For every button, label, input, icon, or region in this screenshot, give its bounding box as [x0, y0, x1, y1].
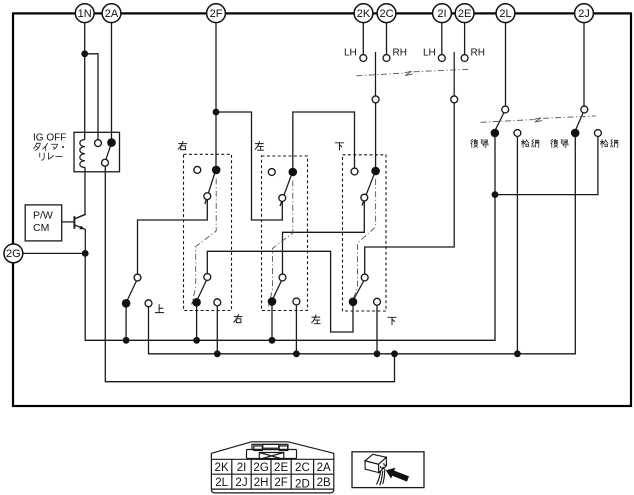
relay icon arrow — [386, 468, 409, 482]
labels fukki / kakunou left — [471, 139, 539, 147]
labels fukki / kakunou right — [551, 139, 618, 147]
node bus1 junction with right-switch contact — [193, 337, 200, 344]
wire down-switch open contact to bus2 — [376, 305, 378, 354]
svg-text:2F: 2F — [274, 477, 287, 489]
svg-text:2L: 2L — [499, 8, 511, 20]
svg-text:2C: 2C — [295, 462, 310, 474]
label migi (right) top — [178, 141, 186, 149]
svg-text:2D: 2D — [295, 479, 310, 491]
wire 1N branch to relay switch contact — [85, 54, 98, 140]
wire kakunou-L contact to bus2 — [516, 136, 518, 353]
relay location icon box — [352, 452, 424, 488]
connector pin 2K — [354, 4, 373, 23]
relay switch arm — [106, 146, 111, 159]
svg-text:2H: 2H — [254, 477, 269, 489]
svg-text:2G: 2G — [6, 248, 21, 260]
svg-text:2A: 2A — [317, 462, 331, 474]
mirror LH/RH switch 1 (2K/2C) — [360, 52, 390, 103]
connector pin 2L — [496, 4, 515, 23]
wire 2G to emitter junction — [23, 252, 85, 254]
node bus2 junction left-switch open contact — [293, 350, 300, 357]
wire 2J to fukki switch pivot — [583, 23, 585, 107]
relay coil L1 — [80, 140, 85, 168]
wire left-switch NC contact to bus1 — [271, 305, 273, 340]
wire right-switch open contact to bus2 — [216, 306, 218, 354]
right-box upper switch — [194, 166, 221, 204]
svg-text:2K: 2K — [357, 8, 371, 20]
node bus1 junction with left-switch contact — [269, 337, 276, 344]
wire relay switch output to junction on bus 2 riser — [105, 166, 394, 382]
P/W CM control module box — [25, 205, 62, 241]
wire 2K to LH contact — [362, 23, 364, 55]
wire right-switch NC contact to bus1 — [196, 306, 198, 341]
connector pin 1N — [75, 4, 94, 23]
wire right-box lower pivot rail to down-box lower contact — [207, 251, 353, 332]
connector pin 2F — [207, 4, 226, 23]
wire mirror switch1 arm to down-box upper contact — [375, 103, 377, 167]
wire 2E to RH contact — [464, 23, 466, 55]
wire left-box upper contact bridge to down-box upper contact — [293, 112, 355, 168]
fukki/kakunou switch R (2J) — [571, 106, 601, 137]
wire bus2 switch-contact rail — [149, 137, 576, 354]
wire 1N to relay coil — [84, 23, 86, 140]
wire left-switch open contact to bus2 — [295, 305, 297, 354]
connector pin 2A — [102, 4, 121, 23]
node bus1 junction with up-switch contact — [123, 337, 130, 344]
svg-text:2J: 2J — [578, 8, 590, 20]
wire relay coil to transistor collector — [75, 167, 85, 218]
connector pinout table — [211, 442, 333, 493]
svg-text:IG OFF: IG OFF — [33, 133, 66, 144]
wire bus1 ground rail — [85, 137, 495, 340]
wire 2I-2E arm pivot to down-box lower pivot — [365, 103, 455, 274]
svg-text:2G: 2G — [253, 462, 268, 474]
node bus2 junction right-switch open contact — [214, 350, 221, 357]
relay fixed contact (from 1N) — [95, 140, 102, 147]
label ue (up) — [155, 305, 163, 313]
svg-text:2K: 2K — [215, 462, 229, 474]
left-box dashed enclosure — [262, 156, 308, 311]
wire 2A to relay switch common — [111, 23, 113, 139]
svg-text:2C: 2C — [379, 8, 393, 20]
connector pinout cell labels row 1 — [215, 462, 331, 474]
relay K1: IG OFF timer relay box — [74, 132, 120, 172]
right-box mechanical linkage — [192, 179, 217, 305]
svg-text:RH: RH — [393, 48, 407, 59]
svg-text:RH: RH — [471, 48, 485, 59]
connector pinout cell labels row 2 — [215, 477, 331, 491]
fukki/kakunou switch L (2L) — [491, 106, 521, 137]
mirror LH/RH switch 2 (2I/2E) — [438, 52, 468, 103]
relay icon 3D cube — [365, 454, 387, 485]
svg-text:2E: 2E — [274, 462, 288, 474]
wire 2F branch to left-box upper common — [216, 112, 282, 220]
wire up-switch NC contact to bus1 — [125, 307, 127, 341]
down-box mechanical linkage — [352, 179, 376, 305]
svg-text:LH: LH — [423, 48, 436, 59]
node bus2 junction relay riser — [391, 350, 398, 357]
wire 2F down to right-box upper contact — [215, 23, 217, 166]
wire 2I to LH contact — [441, 23, 443, 55]
svg-text:2J: 2J — [235, 477, 247, 489]
svg-text:LH: LH — [344, 48, 357, 59]
right-box dashed enclosure — [184, 154, 232, 310]
node 2F branch junction — [213, 109, 220, 116]
svg-text:2I: 2I — [237, 462, 247, 474]
svg-text:2I: 2I — [437, 8, 446, 20]
wire bridge fukki-L to kakunou-R — [495, 136, 598, 194]
label shita (down) top — [335, 143, 343, 150]
connector pin 2G — [4, 244, 23, 263]
left-box lower switch — [268, 274, 300, 306]
wire 2C to RH contact — [386, 23, 388, 55]
connector pin 2C — [377, 4, 396, 23]
relay moving contact — [102, 159, 109, 166]
mechanical linkage mirror switches with Z mark — [357, 73, 405, 76]
wire down-box upper common to left-box lower pivot — [283, 201, 365, 274]
mechanical linkage fukki switches with Z mark — [481, 120, 534, 123]
transistor Q1 (NPN) — [62, 214, 86, 253]
node bridge junction on fukki net — [492, 191, 499, 198]
svg-text:P/W: P/W — [33, 210, 53, 222]
node bus2 junction kakunou-L — [514, 350, 521, 357]
down-box dashed enclosure — [343, 155, 387, 311]
connector pin 2I — [433, 4, 452, 23]
svg-text:2E: 2E — [458, 8, 471, 20]
svg-text:2A: 2A — [105, 8, 119, 20]
svg-text:1N: 1N — [78, 8, 92, 20]
svg-text:2F: 2F — [210, 8, 223, 20]
left-box mechanical linkage — [269, 181, 293, 307]
down-box upper switch — [351, 167, 380, 206]
down-box lower switch — [349, 274, 381, 306]
wire right-box upper common to up-switch pivot — [138, 200, 208, 275]
node bus2 junction down-switch open contact — [374, 350, 381, 357]
connector pin 2E — [455, 4, 474, 23]
label shita (down) bottom — [388, 317, 396, 324]
node emitter junction — [82, 250, 89, 257]
label migi (right) bottom — [234, 314, 242, 322]
wire 2L to fukki switch pivot — [505, 23, 507, 107]
node 1N branch junction — [81, 50, 88, 57]
connector pin 2J — [575, 4, 594, 23]
svg-text:2L: 2L — [215, 477, 228, 489]
up-switch (no box) — [122, 274, 152, 307]
relay common contact (2A, filled) — [107, 138, 116, 147]
label hidari (left) bottom — [312, 315, 321, 324]
label hidari (left) top — [255, 141, 264, 150]
harness outer frame — [13, 13, 631, 406]
svg-text:CM: CM — [33, 222, 49, 234]
left-box upper switch — [268, 168, 297, 206]
svg-text:2B: 2B — [317, 477, 331, 489]
right-box lower switch — [192, 274, 220, 307]
